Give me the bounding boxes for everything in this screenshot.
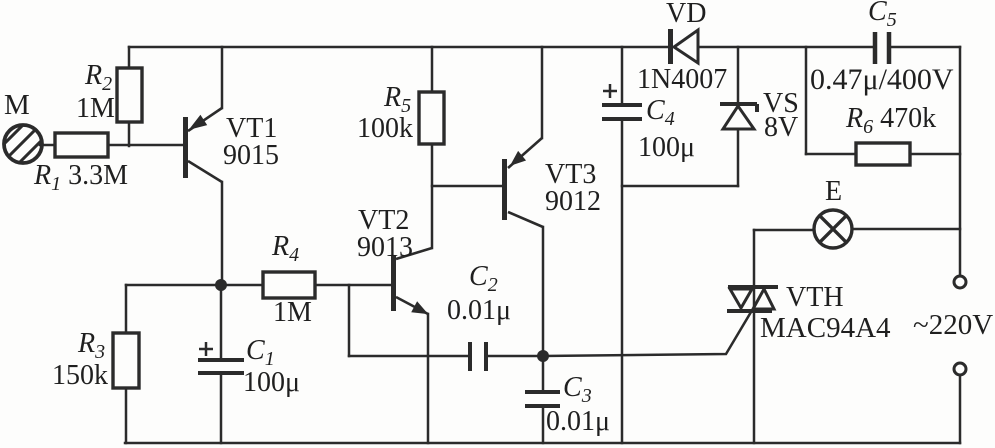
resistor R1: [55, 133, 108, 157]
wire R4 to VT2 base: [315, 284, 391, 287]
wire R3 bottom lead: [125, 388, 128, 443]
transistor VT2: [391, 248, 432, 314]
svg-text:100μ: 100μ: [638, 132, 695, 163]
svg-text:M: M: [4, 89, 30, 121]
capacitor C4: [602, 105, 642, 119]
resistor R4: [263, 272, 315, 298]
wire VT3 base: [432, 185, 502, 188]
svg-text:150k: 150k: [52, 360, 108, 391]
svg-text:MAC94A4: MAC94A4: [760, 312, 891, 344]
svg-text:R1 3.3M: R1 3.3M: [33, 160, 128, 195]
svg-text:9015: 9015: [223, 140, 279, 171]
wire triac gate: [543, 312, 751, 356]
wire C4 to VS bottom: [622, 185, 738, 188]
svg-text:1M: 1M: [273, 297, 312, 328]
svg-text:VTH: VTH: [786, 282, 844, 313]
terminal upper: [954, 276, 966, 288]
wire C3 top lead: [542, 356, 545, 391]
capacitor C3: [525, 392, 560, 406]
svg-text:9012: 9012: [545, 186, 601, 217]
triac VTH: [727, 287, 778, 311]
wire VT2 emitter drop: [427, 314, 430, 443]
wire triac main vertical: [753, 230, 756, 443]
svg-text:9013: 9013: [357, 232, 413, 263]
wire C2 right plate to node B: [489, 355, 543, 358]
wire node A horizontal (R3 to R4): [126, 284, 263, 287]
resistor R5: [419, 92, 444, 144]
resistor R2: [117, 68, 142, 122]
wire R6 left lead: [806, 153, 856, 156]
wire R2 top lead: [128, 47, 131, 68]
wire VT3 emitter riser: [541, 47, 544, 138]
wire R5 bottom lead / VT2 collector riser: [431, 144, 434, 248]
wire VT3 collector drop: [542, 227, 545, 356]
wire lamp left lead: [754, 229, 814, 232]
wire to C2 left plate: [349, 355, 467, 358]
svg-text:R6 470k: R6 470k: [845, 103, 936, 138]
wire top rail middle segment (VD cathode to C5): [699, 46, 872, 49]
wire right edge vertical: [959, 47, 962, 276]
wire C4 bottom lead to bottom rail: [621, 120, 624, 443]
terminal lower: [954, 363, 966, 375]
wire C1 top lead: [220, 285, 223, 359]
svg-text:8V: 8V: [764, 112, 798, 143]
wire C3 bottom lead: [542, 407, 545, 443]
wire C2 branch vertical: [348, 285, 351, 356]
wire R6 left riser: [805, 47, 808, 154]
svg-text:1M: 1M: [76, 93, 115, 124]
svg-text:~220V: ~220V: [913, 309, 993, 341]
wire R2 bottom lead: [128, 122, 131, 146]
wire C1 bottom lead: [220, 374, 223, 443]
transistor VT1: [183, 108, 222, 182]
svg-text:E: E: [825, 176, 842, 207]
svg-text:100k: 100k: [357, 113, 413, 144]
diode VD: [668, 29, 698, 64]
svg-text:100μ: 100μ: [243, 367, 300, 398]
touch electrode M: [0, 118, 54, 179]
wire lower terminal to bottom rail: [959, 375, 962, 443]
zener diode VS: [720, 104, 757, 129]
node A junction dot: [215, 279, 227, 291]
C1 polarity plus: [199, 342, 213, 356]
svg-text:0.01μ: 0.01μ: [447, 295, 511, 326]
svg-text:1N4007: 1N4007: [637, 64, 727, 95]
wire C4 top lead: [621, 47, 624, 104]
wire VS bottom lead: [737, 130, 740, 186]
transistor VT3: [502, 138, 543, 227]
lamp E: [814, 210, 852, 248]
resistor R6: [856, 143, 910, 165]
wire M to R1: [40, 144, 55, 147]
wire VT1 emitter riser: [221, 47, 224, 108]
svg-text:VD: VD: [666, 0, 706, 29]
wire bottom rail: [125, 442, 960, 445]
capacitor C1: [198, 360, 244, 373]
wire top rail right segment (C5 to right corner): [892, 46, 960, 49]
wire R1 to VT1 base: [108, 144, 183, 147]
resistor R3: [113, 333, 139, 388]
wire R6 right lead: [910, 153, 960, 156]
wire R3 top lead: [125, 285, 128, 333]
wire lamp right lead: [852, 228, 960, 231]
capacitor C5: [875, 32, 889, 64]
wire VT1 collector drop: [221, 182, 224, 285]
wire VS top lead: [737, 47, 740, 104]
C4 polarity plus: [603, 84, 617, 98]
wire R5 top lead: [431, 47, 434, 92]
node B junction dot: [537, 350, 549, 362]
svg-text:0.01μ: 0.01μ: [546, 406, 610, 437]
wire top rail left segment: [129, 46, 669, 49]
svg-text:0.47μ/400V: 0.47μ/400V: [810, 63, 954, 96]
capacitor C2: [470, 342, 486, 371]
